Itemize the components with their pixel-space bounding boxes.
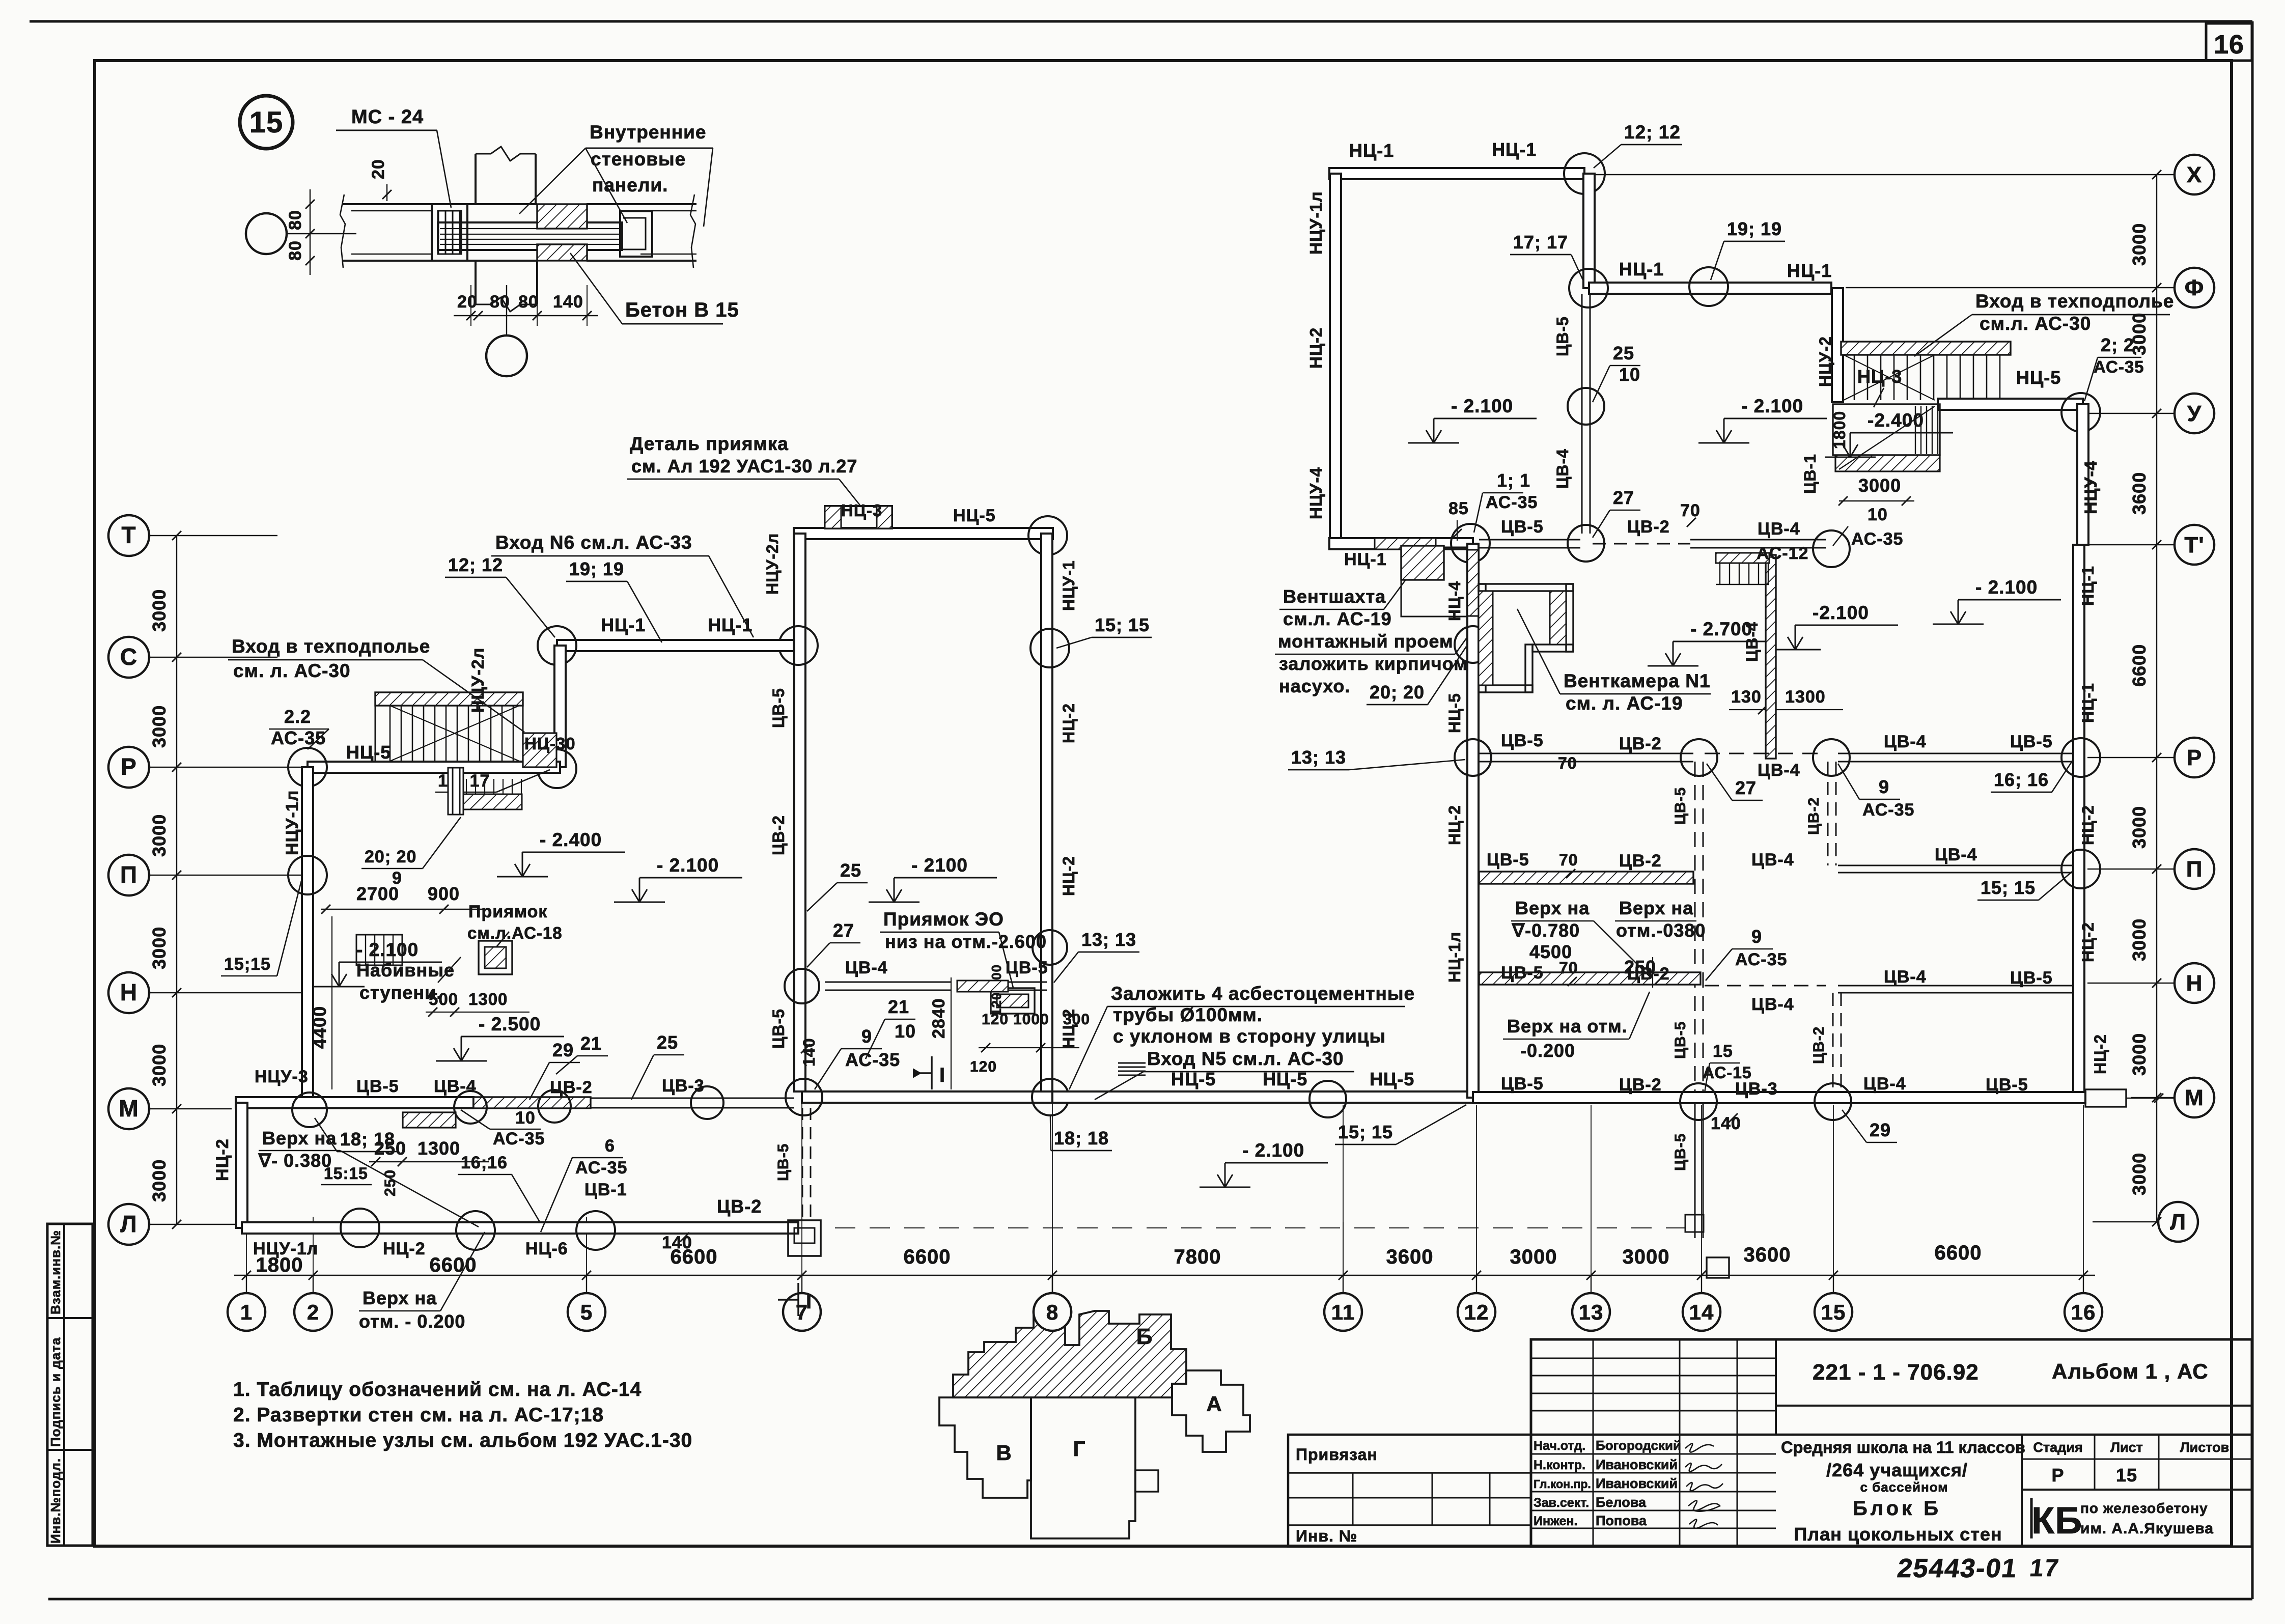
svg-text:ЦВ-5: ЦВ-5 (775, 1143, 792, 1181)
svg-text:- 2.100: - 2.100 (1451, 396, 1513, 416)
svg-text:20: 20 (369, 159, 388, 179)
svg-text:ЦВ-4: ЦВ-4 (1758, 519, 1800, 539)
svg-text:9: 9 (1879, 776, 1889, 797)
svg-text:9: 9 (1751, 926, 1762, 947)
node circle 20;20 left wall right bldg (1455, 626, 1491, 663)
left stamp column (47, 1224, 93, 1546)
wall axis R (NC-5) left protrusion (308, 762, 560, 773)
detail dim line bottom (454, 315, 598, 316)
svg-text:см. л. АС-30: см. л. АС-30 (233, 660, 351, 681)
wall row U dashes CV-2 (1593, 543, 1690, 545)
svg-text:ЦВ-5: ЦВ-5 (1672, 1133, 1689, 1171)
svg-text:1300: 1300 (417, 1138, 460, 1159)
svg-text:16: 16 (2071, 1300, 2096, 1324)
svg-text:АС-35: АС-35 (575, 1158, 627, 1178)
svg-text:3000: 3000 (2129, 223, 2150, 266)
svg-text:Блок Б: Блок Б (1853, 1497, 1941, 1520)
bottom dimension line with ticks and values (234, 1275, 2095, 1276)
svg-text:Вентшахта: Вентшахта (1283, 586, 1386, 607)
svg-text:КБ: КБ (2031, 1499, 2082, 1542)
svg-text:М: М (119, 1095, 138, 1122)
detail wall band inner lines (351, 210, 432, 212)
svg-text:3000: 3000 (149, 589, 170, 632)
svg-text:15: 15 (1713, 1042, 1733, 1061)
svg-text:27: 27 (1735, 777, 1757, 798)
svg-text:Верх на: Верх на (363, 1287, 437, 1308)
svg-text:10: 10 (515, 1108, 536, 1128)
wall row U thin CV-4 (1690, 539, 1826, 541)
svg-text:Л: Л (120, 1211, 137, 1237)
svg-text:1; 1: 1; 1 (1497, 470, 1530, 491)
svg-text:см. Ал 192 УАС1-30 л.27: см. Ал 192 УАС1-30 л.27 (631, 456, 857, 477)
svg-text:с бассейном: с бассейном (1860, 1479, 1948, 1495)
svg-text:80: 80 (518, 292, 539, 312)
svg-text:3000: 3000 (2129, 918, 2150, 961)
L wall node circles (341, 1209, 379, 1247)
svg-text:Привязан: Привязан (1296, 1445, 1378, 1464)
svg-text:Верх на: Верх на (1619, 898, 1693, 918)
svg-text:У: У (2187, 401, 2202, 426)
sheet outer border right edge (2251, 21, 2254, 1599)
right axis row circles X F U T' R P N M L (2175, 155, 2214, 194)
svg-text:29: 29 (1870, 1119, 1891, 1140)
wall axis L bottom (242, 1222, 798, 1234)
svg-text:∇-0.780: ∇-0.780 (1512, 920, 1580, 941)
svg-text:НЦУ-2: НЦУ-2 (1816, 336, 1834, 387)
svg-text:ЦВ-5: ЦВ-5 (1501, 963, 1544, 983)
wall M hatched part CV-5 (473, 1097, 591, 1108)
svg-text:Взам.инв.№: Взам.инв.№ (48, 1230, 63, 1314)
wall right outer lower (2073, 545, 2084, 1098)
svg-text:1: 1 (240, 1300, 253, 1324)
svg-text:- 2.400: - 2.400 (540, 829, 602, 850)
svg-text:АС-35: АС-35 (845, 1049, 900, 1070)
sheet outer border top edge (30, 20, 2252, 23)
ventkamera walls (1479, 584, 1573, 591)
svg-text:В: В (996, 1441, 1012, 1465)
svg-text:ЦВ-4: ЦВ-4 (1758, 761, 1800, 780)
svg-text:6600: 6600 (430, 1254, 477, 1276)
wall axis5 from C to R (554, 646, 566, 767)
detail node circle 15 (240, 96, 293, 149)
vert wall CV-2 R to P (1827, 762, 1829, 865)
svg-text:Вход в техподполье: Вход в техподполье (1975, 291, 2174, 312)
wall axis F' (NC-1 NC-1) second top (1589, 283, 1831, 294)
svg-text:- 2.100: - 2.100 (657, 855, 719, 876)
svg-text:ЦВ-5: ЦВ-5 (1501, 517, 1544, 537)
hatch seg on U bottom wall (1375, 538, 1436, 549)
svg-text:НЦУ-2л: НЦУ-2л (468, 648, 488, 713)
svg-text:НЦУ-2л: НЦУ-2л (763, 533, 782, 595)
svg-text:А: А (1206, 1392, 1222, 1416)
svg-text:Приямок ЭО: Приямок ЭО (883, 909, 1004, 930)
svg-text:НЦ-1: НЦ-1 (1349, 140, 1394, 161)
svg-text:1. Таблицу обозначений см. на: 1. Таблицу обозначений см. на л. АС-14 (233, 1379, 642, 1401)
priyamok EO box (991, 988, 1035, 1014)
svg-text:ЦВ-4: ЦВ-4 (845, 958, 888, 977)
svg-text:3000: 3000 (149, 705, 170, 748)
node circles axis8 wall lower (1033, 930, 1067, 965)
CV-5 stub below M (1694, 1104, 1696, 1238)
svg-text:ЦВ-5: ЦВ-5 (1672, 787, 1689, 825)
priyamok square (479, 941, 512, 974)
svg-text:Т: Т (121, 522, 136, 548)
svg-text:Средняя школа на 11 классов: Средняя школа на 11 классов (1781, 1438, 2025, 1457)
svg-text:ЦВ-2: ЦВ-2 (1805, 797, 1822, 835)
svg-text:ЦВ-2: ЦВ-2 (1619, 851, 1662, 871)
svg-text:1300: 1300 (468, 990, 508, 1009)
wall axis U bottom of top block (1329, 538, 1473, 549)
svg-text:ЦВ-5: ЦВ-5 (1986, 1075, 2028, 1095)
svg-text:Инжен.: Инжен. (1534, 1514, 1577, 1528)
svg-text:АС-35: АС-35 (1486, 493, 1538, 512)
svg-text:ЦВ-2: ЦВ-2 (1619, 1075, 1662, 1095)
wall NCU-2 right upper (1832, 288, 1843, 402)
node circle on axis7 wall at C (779, 626, 818, 665)
svg-text:ЦВ-2: ЦВ-2 (1810, 1026, 1827, 1064)
svg-text:Н: Н (120, 979, 137, 1005)
svg-text:12; 12: 12; 12 (448, 554, 503, 575)
svg-text:НЦ-2: НЦ-2 (383, 1239, 426, 1258)
svg-text:панели.: панели. (592, 175, 668, 195)
svg-text:отм. - 0.200: отм. - 0.200 (359, 1311, 465, 1332)
svg-text:25: 25 (1613, 343, 1634, 363)
svg-text:Белова: Белова (1596, 1495, 1647, 1510)
svg-text:Альбом 1 , АС: Альбом 1 , АС (2052, 1359, 2209, 1383)
node circle M/axis2 (292, 1093, 327, 1127)
svg-text:НЦ-6: НЦ-6 (525, 1239, 568, 1258)
dashed axis line vert 11 (1343, 1222, 1344, 1275)
svg-text:ЦВ-1: ЦВ-1 (584, 1180, 627, 1199)
svg-text:НЦУ-4: НЦУ-4 (2081, 460, 2101, 514)
svg-text:НЦ-2: НЦ-2 (1060, 856, 1078, 896)
svg-text:Х: Х (2187, 162, 2202, 187)
svg-text:21: 21 (888, 996, 909, 1017)
svg-text:НЦ-3: НЦ-3 (1857, 366, 1902, 387)
wall row R right (CV-4 CV-5) (1838, 753, 2073, 754)
AC-12 stair top right (1716, 553, 1769, 563)
hatch on left wall NC-4 (1467, 550, 1479, 616)
stair side walls (375, 706, 376, 762)
svg-text:ЦВ-2: ЦВ-2 (550, 1078, 593, 1097)
svg-text:2840: 2840 (929, 998, 949, 1039)
svg-text:ЦВ-5: ЦВ-5 (2010, 968, 2053, 988)
svg-text:см.л. АС-19: см.л. АС-19 (1283, 608, 1392, 629)
svg-text:Вход N5 см.л. АС-30: Вход N5 см.л. АС-30 (1147, 1048, 1344, 1069)
wall row R left (CV-5 70 CV-2) (1479, 753, 1693, 754)
svg-text:ЦВ-5: ЦВ-5 (1487, 850, 1529, 870)
svg-text:ЦВ-5: ЦВ-5 (1553, 316, 1572, 356)
wall left side of top block (1330, 174, 1341, 544)
svg-text:Лист: Лист (2110, 1440, 2143, 1455)
svg-text:3000: 3000 (1623, 1246, 1670, 1268)
svg-text:НЦУ-1л: НЦУ-1л (1306, 191, 1325, 255)
svg-text:15: 15 (1821, 1300, 1846, 1324)
svg-text:НЦ-2: НЦ-2 (1060, 703, 1078, 743)
svg-text:1300: 1300 (1785, 687, 1826, 707)
detail dim extension lines (470, 285, 471, 326)
svg-text:140: 140 (553, 292, 583, 312)
svg-text:НЦ-5: НЦ-5 (1445, 693, 1464, 733)
svg-text:3000: 3000 (149, 1159, 170, 1202)
detail priyamok box on top wall (825, 506, 892, 528)
svg-text:16; 16: 16; 16 (1994, 769, 2049, 790)
svg-text:900: 900 (428, 883, 460, 904)
svg-text:Зав.сект.: Зав.сект. (1534, 1496, 1589, 1510)
svg-text:70: 70 (1680, 501, 1701, 520)
svg-text:300: 300 (1063, 1011, 1090, 1028)
dim 3000 10 AC-35 right (1839, 500, 1914, 501)
svg-text:3600: 3600 (1744, 1244, 1791, 1266)
svg-text:27: 27 (1613, 487, 1634, 508)
svg-text:3000: 3000 (149, 1044, 170, 1086)
svg-text:Бетон В 15: Бетон В 15 (625, 299, 739, 321)
svg-text:ЦВ-5: ЦВ-5 (1672, 1021, 1689, 1059)
svg-text:АС-12: АС-12 (1757, 544, 1808, 563)
detail concrete hatch upper (537, 204, 587, 229)
svg-text:НЦ-2: НЦ-2 (2079, 805, 2097, 845)
svg-text:см.л. АС-30: см.л. АС-30 (1980, 313, 2091, 334)
svg-text:80: 80 (286, 240, 305, 261)
svg-text:Стадия: Стадия (2033, 1440, 2082, 1455)
svg-text:План цокольных стен: План цокольных стен (1794, 1524, 2002, 1545)
svg-text:20; 20: 20; 20 (1370, 682, 1425, 703)
svg-text:85: 85 (1448, 499, 1469, 518)
wall row N-P hatched band (1479, 972, 1701, 985)
detail floor slab bar (438, 222, 622, 250)
right vertical dimension chain (2156, 175, 2157, 1222)
svg-text:- 2.100: - 2.100 (1741, 396, 1803, 416)
wall row N thin (1705, 985, 1826, 987)
svg-text:Т': Т' (2184, 533, 2204, 557)
svg-text:6600: 6600 (904, 1246, 951, 1268)
svg-text:ЦВ-5: ЦВ-5 (1501, 1074, 1544, 1094)
svg-text:НЦ-1: НЦ-1 (2079, 683, 2097, 723)
svg-text:АС-35: АС-35 (493, 1129, 545, 1149)
node circle 9/AC-35 at R (1813, 739, 1850, 776)
svg-text:АС-15: АС-15 (1703, 1063, 1752, 1082)
handwritten doc number (1896, 1554, 2061, 1583)
svg-text:Ивановский: Ивановский (1596, 1457, 1678, 1472)
svg-text:Вход в техподполье: Вход в техподполье (232, 636, 430, 657)
svg-text:18; 18: 18; 18 (340, 1129, 395, 1150)
svg-text:Набивные: Набивные (356, 960, 455, 981)
svg-text:2.2: 2.2 (284, 706, 311, 727)
svg-text:250: 250 (382, 1169, 399, 1196)
svg-text:10: 10 (1868, 505, 1888, 524)
svg-text:2700: 2700 (356, 883, 399, 904)
svg-text:Р: Р (121, 753, 137, 780)
svg-text:по железобетону: по железобетону (2080, 1500, 2208, 1516)
svg-text:НЦ-1л: НЦ-1л (1445, 932, 1464, 983)
stair treads inside room (1915, 406, 1916, 454)
stair treads left entrance (389, 706, 391, 762)
svg-text:см. л. АС-19: см. л. АС-19 (1566, 693, 1683, 714)
svg-text:М: М (2185, 1085, 2204, 1110)
axis circle 8 redraw over key plan (1034, 1293, 1071, 1331)
svg-text:ЦВ-5: ЦВ-5 (356, 1077, 399, 1096)
svg-text:НЦ-5: НЦ-5 (346, 742, 391, 763)
svg-text:Гл.кон.пр.: Гл.кон.пр. (1534, 1477, 1591, 1491)
node circles on M right (1680, 1083, 1717, 1120)
svg-text:Богородский: Богородский (1596, 1438, 1681, 1453)
dashed axis line L mid (835, 1227, 1685, 1228)
svg-text:20: 20 (457, 292, 478, 312)
svg-text:Попова: Попова (1596, 1513, 1647, 1528)
svg-text:Подпись и дата: Подпись и дата (48, 1337, 63, 1447)
svg-text:Внутренние: Внутренние (590, 122, 706, 143)
svg-text:НЦ-2: НЦ-2 (213, 1138, 232, 1181)
svg-text:20; 20: 20; 20 (365, 847, 416, 866)
svg-text:11: 11 (1331, 1300, 1355, 1324)
svg-text:НЦ-2: НЦ-2 (1306, 327, 1325, 369)
wall M recess step (403, 1112, 456, 1128)
detail panel end block MC-24 (432, 204, 467, 261)
svg-text:НЦ-1: НЦ-1 (1344, 550, 1387, 569)
svg-text:I: I (806, 1291, 812, 1313)
corner node circle 12;12 (1564, 153, 1605, 194)
wall M thin part CV-2 CV-3 (591, 1098, 794, 1099)
svg-text:ЦВ-5: ЦВ-5 (769, 688, 788, 728)
svg-text:ЦВ-2: ЦВ-2 (717, 1196, 762, 1217)
svg-text:Ивановский: Ивановский (1596, 1476, 1678, 1491)
svg-text:140: 140 (662, 1233, 692, 1252)
wall axis M from 7 to 8 (NC-5) (802, 1091, 1052, 1103)
svg-text:Н: Н (2186, 971, 2203, 996)
svg-text:трубы Ø100мм.: трубы Ø100мм. (1113, 1004, 1263, 1025)
svg-text:I: I (939, 1064, 945, 1086)
svg-text:Заложить 4 асбестоцементные: Заложить 4 асбестоцементные (1111, 983, 1415, 1004)
svg-text:НЦУ-4: НЦУ-4 (1306, 467, 1325, 519)
svg-text:6: 6 (605, 1136, 615, 1156)
left axis row circles T S R P N M L (108, 515, 149, 556)
svg-text:3600: 3600 (1386, 1246, 1434, 1268)
vertical hatched wall CV-4 right section (1766, 555, 1776, 759)
wall axis M between buildings (NC-5) (1052, 1091, 1473, 1103)
stair steps small lower-left (356, 935, 402, 965)
svg-text:9: 9 (861, 1026, 872, 1047)
svg-text:ЦВ-4: ЦВ-4 (1751, 850, 1794, 870)
svg-text:НЦУ-1: НЦУ-1 (1060, 560, 1078, 611)
svg-text:НЦ-2: НЦ-2 (2079, 922, 2097, 962)
ventshahta hatched box NC-1 (1401, 546, 1444, 580)
detail right bracket block (620, 211, 652, 257)
svg-text:ЦВ-4: ЦВ-4 (1884, 967, 1927, 987)
corner node circle 2.2/AC-35 at R (288, 748, 327, 787)
svg-text:Верх на: Верх на (1515, 898, 1590, 918)
svg-text:насухо.: насухо. (1279, 676, 1350, 696)
svg-text:им. А.А.Якушева: им. А.А.Якушева (2080, 1520, 2214, 1537)
svg-text:2; 2: 2; 2 (2101, 334, 2134, 355)
detail upper column (475, 154, 477, 204)
wall thin row above M (CV-4) (825, 982, 951, 983)
svg-text:НЦ-5: НЦ-5 (953, 506, 996, 525)
svg-text:НЦУ-3: НЦУ-3 (255, 1067, 309, 1086)
stair treads right entrance (1854, 355, 1855, 400)
svg-text:4400: 4400 (309, 1006, 330, 1049)
svg-text:НЦ-1: НЦ-1 (1492, 139, 1537, 160)
node circle R right wall (2061, 738, 2100, 777)
title signatures squiggles (1685, 1443, 1723, 1528)
stair room right box (1833, 404, 1940, 455)
svg-text:Инв. №: Инв. № (1296, 1527, 1357, 1545)
svg-text:ЦВ-4: ЦВ-4 (1751, 995, 1794, 1014)
svg-text:5: 5 (580, 1300, 593, 1324)
svg-text:15;15: 15;15 (224, 955, 271, 974)
svg-text:С: С (120, 643, 137, 670)
svg-text:3000: 3000 (149, 927, 170, 969)
svg-text:140: 140 (1711, 1114, 1741, 1133)
svg-text:80: 80 (490, 292, 510, 312)
svg-text:70: 70 (1559, 851, 1578, 869)
svg-text:отм.-0380: отм.-0380 (1616, 920, 1706, 941)
svg-text:НЦ-2: НЦ-2 (1445, 805, 1464, 845)
svg-text:Венткамера N1: Венткамера N1 (1564, 670, 1711, 691)
wall axis U right part (1938, 399, 2083, 410)
svg-text:12: 12 (1464, 1300, 1489, 1324)
svg-text:120: 120 (970, 1058, 997, 1075)
svg-text:29: 29 (552, 1040, 574, 1060)
svg-text:П: П (2186, 857, 2203, 882)
stair diag marks right (1844, 355, 1935, 400)
sheet outer border bottom edge (48, 1598, 2252, 1601)
sheet number box 16 (2206, 23, 2252, 61)
wall top axis X (NC-1) (1329, 168, 1584, 179)
svg-text:ЦВ-2: ЦВ-2 (769, 815, 788, 855)
wall right side of top block axis12 (1583, 174, 1595, 288)
wall axis M right building (1473, 1092, 2085, 1103)
svg-text:НЦУ-1л: НЦУ-1л (283, 790, 302, 855)
privyazan block (1288, 1435, 1531, 1547)
wall CV-5 column axis12 (1581, 294, 1583, 534)
wall row R mid (CV-4) (1705, 753, 1826, 754)
node circle P junction left wall (288, 856, 327, 894)
svg-text:3600: 3600 (2129, 472, 2150, 515)
svg-text:Р: Р (2187, 745, 2202, 770)
wall axis T top (NC-5) of tall room (794, 528, 1053, 539)
detail concrete hatch lower (537, 244, 587, 261)
svg-text:- 2.100: - 2.100 (1975, 577, 2038, 598)
small box below M (1707, 1257, 1729, 1278)
svg-text:1800: 1800 (1830, 411, 1849, 449)
svg-text:ЦВ-5: ЦВ-5 (769, 1009, 788, 1049)
I section mark mid (931, 1056, 933, 1089)
svg-text:∇- 0.380: ∇- 0.380 (258, 1150, 332, 1171)
svg-text:НЦ-30: НЦ-30 (524, 734, 576, 753)
dim 2700 900 (321, 909, 458, 910)
svg-text:Вход N6 см.л. АС-33: Вход N6 см.л. АС-33 (495, 532, 692, 553)
detail band right break (690, 194, 695, 268)
wall left side axis1? R to M (302, 767, 313, 1104)
svg-text:НЦ-5: НЦ-5 (2016, 367, 2061, 388)
M wall right stub (2085, 1089, 2126, 1107)
svg-text:монтажный проем: монтажный проем (1278, 631, 1454, 652)
svg-text:НЦУ-1л: НЦУ-1л (253, 1239, 318, 1258)
svg-text:25: 25 (657, 1032, 678, 1053)
svg-text:17; 17: 17; 17 (1513, 232, 1568, 253)
svg-text:21: 21 (580, 1033, 602, 1054)
svg-text:3000: 3000 (2129, 1153, 2150, 1195)
svg-text:2. Развертки стен см. на л. АС: 2. Развертки стен см. на л. АС-17;18 (233, 1404, 604, 1426)
inner stair lower hatch (461, 794, 522, 809)
svg-text:ЦВ-4: ЦВ-4 (1935, 845, 1977, 864)
svg-text:ЦВ-4: ЦВ-4 (434, 1077, 477, 1096)
svg-text:17: 17 (2028, 1554, 2061, 1582)
svg-text:3000: 3000 (1510, 1246, 1557, 1268)
svg-text:16: 16 (2214, 30, 2244, 60)
wall axis M left part (NCU-3) (236, 1097, 473, 1108)
svg-text:Р: Р (2051, 1465, 2064, 1486)
